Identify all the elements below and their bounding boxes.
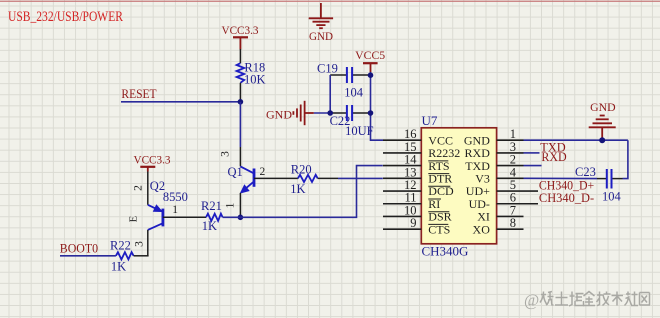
svg-text:RESET: RESET xyxy=(121,86,156,101)
capacitor C22 xyxy=(330,105,374,138)
U7 pin 9 CTS xyxy=(383,216,450,236)
U7 pin 4 V3 xyxy=(475,165,523,185)
transistor Q1 xyxy=(220,147,298,217)
resistor R20 xyxy=(298,175,318,182)
U7 pin 2 TXD xyxy=(465,153,523,173)
svg-text:2: 2 xyxy=(133,185,145,191)
wire R21 to junction xyxy=(223,216,241,218)
watermark xyxy=(524,291,650,310)
svg-text:E: E xyxy=(129,216,140,222)
U7 pin 11 RI xyxy=(383,191,441,211)
svg-text:VCC3.3: VCC3.3 xyxy=(222,25,259,37)
svg-text:GND: GND xyxy=(590,102,616,114)
wire VCC5 rail to U7 pin16 xyxy=(371,72,384,140)
U7 pin 5 UD+ xyxy=(466,178,538,198)
U7 pin 3 RXD xyxy=(465,140,524,160)
svg-text:VCC5: VCC5 xyxy=(355,50,385,62)
junction C22/rail xyxy=(368,110,374,116)
wire R20 to U7 pin13 xyxy=(338,177,383,179)
U7 pin 6 UD- xyxy=(469,191,538,211)
capacitor C23 xyxy=(575,165,623,204)
svg-text:R22: R22 xyxy=(110,239,131,253)
U7 pin 16 VCC xyxy=(383,127,453,147)
transistor Q2 xyxy=(129,172,207,256)
U7 pin 12 DCD xyxy=(383,178,454,198)
junction GND stem / pin1 wire xyxy=(599,137,605,143)
U7 pin 1 GND xyxy=(464,127,524,147)
junction GND/C22/rail xyxy=(327,110,333,116)
svg-text:3: 3 xyxy=(134,241,146,247)
svg-text:CH340G: CH340G xyxy=(422,244,469,259)
capacitor C19 xyxy=(317,61,371,99)
svg-text:U7: U7 xyxy=(422,113,438,128)
wire GND to rail xyxy=(314,112,330,114)
power port VCC3.3 (Q2) xyxy=(140,167,155,172)
U7 pin 13 DTR xyxy=(383,165,452,185)
wire TXD stub xyxy=(524,152,540,154)
svg-text:1: 1 xyxy=(172,204,178,216)
wire BOOT0 xyxy=(60,255,116,257)
svg-text:9: 9 xyxy=(410,216,416,230)
svg-text:VCC3.3: VCC3.3 xyxy=(134,155,171,167)
svg-text:10UF: 10UF xyxy=(345,124,374,138)
svg-text:1K: 1K xyxy=(202,219,217,233)
svg-text:BOOT0: BOOT0 xyxy=(60,242,98,256)
wire GND net down to C23 xyxy=(623,140,628,178)
resistor R21 xyxy=(206,214,223,221)
svg-text:8: 8 xyxy=(510,216,516,230)
ground GND (C22 side) xyxy=(293,101,313,125)
U7 pin 15 R2232 xyxy=(383,140,460,160)
svg-text:CH340_D-: CH340_D- xyxy=(539,191,594,205)
svg-text:C23: C23 xyxy=(575,165,596,179)
wire RESET xyxy=(121,101,240,103)
ground GND (right) xyxy=(589,116,616,141)
wire junction to Q1 collector xyxy=(239,102,241,147)
resistor R18 xyxy=(239,49,241,63)
wire emitter junction to U7 pin14 xyxy=(240,166,382,218)
svg-text:1K: 1K xyxy=(111,259,126,273)
svg-text:8550: 8550 xyxy=(163,190,188,204)
junction VCC5/C19 xyxy=(368,72,374,78)
U7 pin 10 DSR xyxy=(383,203,452,223)
resistor R22 xyxy=(116,252,134,259)
svg-text:GND: GND xyxy=(309,31,333,43)
svg-text:1K: 1K xyxy=(290,182,305,196)
wire U7 pin4 V3 to C23 xyxy=(524,177,598,179)
svg-text:RXD: RXD xyxy=(541,149,566,164)
svg-text:XO: XO xyxy=(473,222,491,236)
U7 pin 7 XI xyxy=(477,203,523,223)
power port VCC3.3 (top) xyxy=(233,37,248,49)
svg-text:3: 3 xyxy=(220,151,232,157)
wire U7 pin1 GND net xyxy=(524,139,628,141)
svg-text:USB_232/USB/POWER: USB_232/USB/POWER xyxy=(8,9,123,25)
ground GND top xyxy=(309,3,333,28)
U7 pin 8 XO xyxy=(473,216,524,236)
svg-text:104: 104 xyxy=(602,190,622,204)
svg-text:C19: C19 xyxy=(317,61,338,75)
svg-text:2: 2 xyxy=(260,166,266,178)
svg-text:104: 104 xyxy=(344,86,364,100)
svg-text:GND: GND xyxy=(266,110,292,122)
svg-text:R20: R20 xyxy=(291,163,312,177)
U7 pin 14 RTS xyxy=(383,153,450,173)
svg-text:@: @ xyxy=(524,291,539,310)
svg-text:10K: 10K xyxy=(244,72,266,86)
svg-text:1: 1 xyxy=(225,202,237,208)
wire RXD stub xyxy=(524,165,542,167)
svg-text:R21: R21 xyxy=(201,199,222,213)
power port VCC5 xyxy=(363,63,378,72)
junction Q1 emitter / R21 xyxy=(238,215,244,221)
wire capacitor left rail xyxy=(329,75,331,113)
IC U7 body xyxy=(421,128,496,244)
junction RESET/R18/Q1 xyxy=(238,99,244,105)
